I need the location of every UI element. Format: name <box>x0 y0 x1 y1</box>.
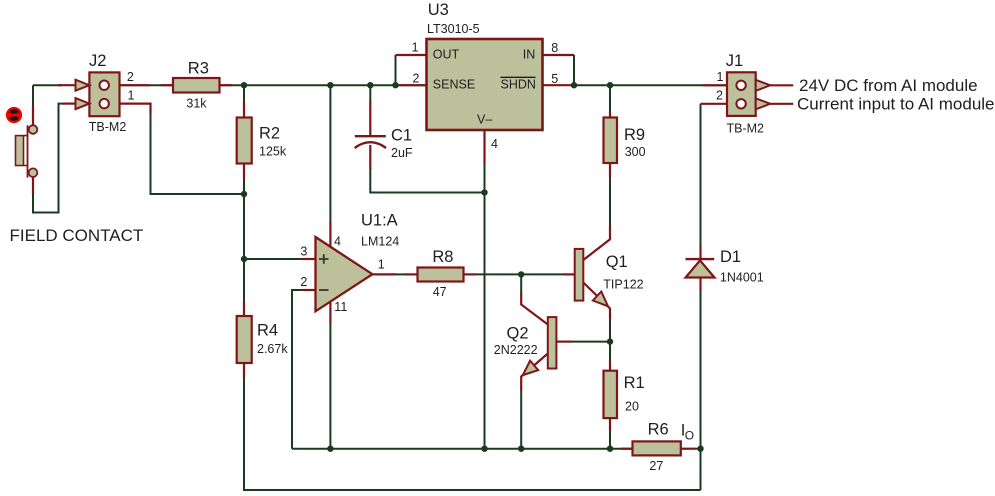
svg-text:LT3010-5: LT3010-5 <box>427 22 480 36</box>
svg-text:2: 2 <box>127 70 134 84</box>
svg-text:2: 2 <box>300 275 307 289</box>
svg-text:5: 5 <box>551 72 558 86</box>
svg-text:SHDN: SHDN <box>501 77 536 91</box>
svg-text:O: O <box>685 429 694 443</box>
svg-text:1: 1 <box>378 258 385 272</box>
svg-text:SENSE: SENSE <box>433 77 475 91</box>
svg-text:4: 4 <box>334 234 341 248</box>
svg-text:LM124: LM124 <box>361 235 399 249</box>
svg-text:4: 4 <box>491 137 498 151</box>
svg-text:Current input to AI module: Current input to AI module <box>797 95 995 114</box>
svg-text:R3: R3 <box>188 59 209 77</box>
svg-text:24V DC from AI module: 24V DC from AI module <box>799 76 978 95</box>
svg-text:U1:A: U1:A <box>361 212 398 230</box>
svg-text:R1: R1 <box>624 374 645 392</box>
svg-text:R8: R8 <box>432 248 453 266</box>
svg-text:C1: C1 <box>391 126 412 144</box>
svg-text:TB-M2: TB-M2 <box>89 120 127 134</box>
svg-text:2: 2 <box>716 89 723 103</box>
svg-text:300: 300 <box>625 145 646 159</box>
svg-text:D1: D1 <box>720 248 741 266</box>
svg-text:3: 3 <box>300 244 307 258</box>
svg-text:Q2: Q2 <box>507 324 529 342</box>
svg-text:31k: 31k <box>186 96 207 110</box>
svg-text:2N2222: 2N2222 <box>494 343 538 357</box>
svg-text:1: 1 <box>412 41 419 55</box>
svg-text:27: 27 <box>649 459 663 473</box>
svg-text:11: 11 <box>334 300 347 314</box>
svg-text:2.67k: 2.67k <box>257 342 288 356</box>
svg-text:8: 8 <box>551 41 558 55</box>
svg-text:IN: IN <box>523 47 536 61</box>
svg-text:R9: R9 <box>624 126 645 144</box>
svg-text:1: 1 <box>128 88 135 102</box>
svg-text:125k: 125k <box>259 145 287 159</box>
svg-text:J2: J2 <box>89 52 106 70</box>
svg-text:R6: R6 <box>648 421 669 439</box>
svg-text:2uF: 2uF <box>391 146 413 160</box>
svg-text:20: 20 <box>625 400 639 414</box>
svg-text:J1: J1 <box>726 52 743 70</box>
svg-text:1: 1 <box>717 70 724 84</box>
svg-text:OUT: OUT <box>433 47 460 61</box>
svg-text:TB-M2: TB-M2 <box>727 121 765 135</box>
svg-text:Q1: Q1 <box>606 253 628 271</box>
svg-text:V–: V– <box>477 113 492 127</box>
svg-text:TIP122: TIP122 <box>603 278 643 292</box>
svg-text:R2: R2 <box>259 125 280 143</box>
svg-text:FIELD CONTACT: FIELD CONTACT <box>10 226 144 245</box>
svg-text:47: 47 <box>433 285 447 299</box>
svg-text:R4: R4 <box>257 322 278 340</box>
svg-text:U3: U3 <box>428 1 449 19</box>
svg-text:1N4001: 1N4001 <box>720 270 764 284</box>
svg-text:2: 2 <box>413 72 420 86</box>
